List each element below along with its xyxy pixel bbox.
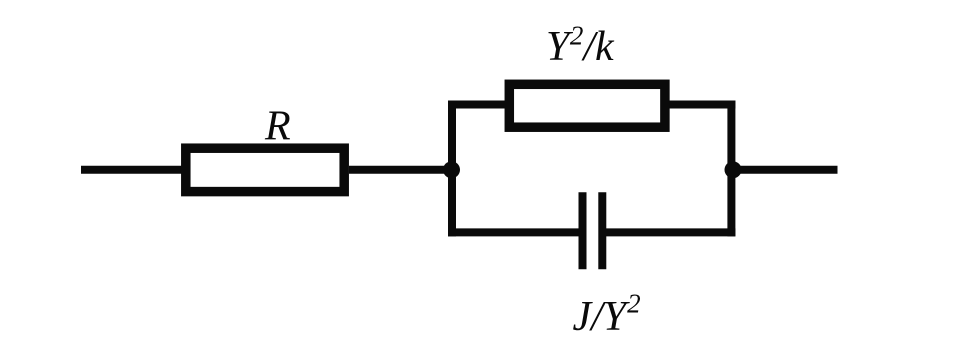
svg-text:R: R	[264, 104, 291, 150]
capacitor J/Y2 left plate	[579, 192, 587, 269]
label J/Y2	[573, 289, 641, 339]
wire bottom left segment	[448, 228, 583, 236]
wire R to node A	[349, 166, 452, 174]
capacitor J/Y2 right plate	[598, 192, 606, 269]
wire top left segment	[448, 101, 509, 109]
wire right lead	[733, 166, 838, 174]
node B junction dot	[725, 161, 742, 178]
wire left lead	[81, 166, 186, 174]
wire left vertical of parallel loop	[448, 101, 456, 237]
label R	[264, 104, 291, 150]
wire right vertical of parallel loop	[727, 101, 735, 237]
label Y2/k	[546, 21, 615, 70]
wire top right segment	[665, 101, 735, 109]
resistor Y2/k	[509, 84, 665, 127]
wire bottom right segment	[602, 228, 735, 236]
node A junction dot	[443, 161, 460, 178]
resistor R	[186, 148, 344, 191]
